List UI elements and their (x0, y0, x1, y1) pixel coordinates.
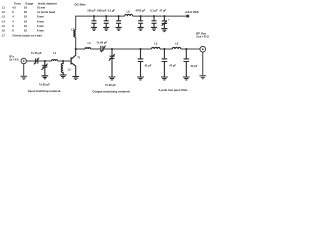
wire: source to series trimmer (26, 60, 35, 62)
capacitor 1000pF (DC filter) (97, 9, 110, 31)
capacitor 47uF electrolytic (DC filter) (159, 9, 170, 32)
svg-text:Output matching network: Output matching network (92, 89, 130, 93)
svg-text:7x 65 pF: 7x 65 pF (39, 83, 50, 87)
svg-text:Zout = 50 Ω: Zout = 50 Ω (196, 35, 209, 39)
svg-text:7x 65 pF: 7x 65 pF (96, 41, 107, 45)
svg-text:8 mm: 8 mm (37, 15, 44, 19)
junction base node (62, 60, 64, 62)
svg-text:10 mm: 10 mm (37, 6, 46, 10)
inductor winding table (2, 1, 57, 37)
svg-text:Zin = 50 Ω: Zin = 50 Ω (9, 58, 18, 62)
svg-text:0.1 µF: 0.1 µF (108, 9, 116, 13)
wire: collector output line (76, 48, 200, 50)
svg-text:7x 65 pF: 7x 65 pF (31, 51, 42, 55)
svg-text:5-pole low pass filter: 5-pole low pass filter (159, 88, 189, 92)
inductor L2 (shunt, vertical) (61, 61, 63, 75)
inductor L1 (series, input network) (51, 59, 57, 61)
svg-text:1000 pF: 1000 pF (97, 9, 107, 13)
supply terminal square (186, 15, 189, 18)
capacitor 0.1uF second (DC filter) (150, 9, 158, 31)
wire: choke to collector node (75, 37, 77, 49)
svg-text:DC filter: DC filter (75, 3, 87, 7)
trimmer capacitor series (input) (31, 51, 42, 64)
svg-text:Turns: Turns (14, 1, 22, 5)
svg-text:47 µF: 47 µF (159, 9, 166, 13)
transistor T1 (71, 49, 76, 77)
RF in source circle (20, 58, 27, 79)
trimmer capacitor series (output) (96, 41, 107, 53)
inductor L6 (series, LPF) (172, 47, 181, 49)
wire: DC supply rail (76, 16, 187, 30)
svg-text:47 pF: 47 pF (169, 63, 176, 67)
trimmer capacitor shunt (input) (39, 61, 50, 87)
capacitor 22pF (LPF) (183, 48, 198, 80)
junction input node (44, 60, 46, 62)
capacitor 0.1uF (DC filter) (108, 9, 122, 31)
svg-text:0.1 µF: 0.1 µF (150, 9, 158, 13)
capacitor 41pF (LPF) (137, 48, 152, 80)
svg-text:4700 pF: 4700 pF (136, 9, 146, 13)
junction collector node (75, 48, 77, 50)
svg-text:41 pF: 41 pF (145, 63, 152, 67)
capacitor 47pF (LPF) (161, 48, 176, 80)
RF out port circle (199, 46, 206, 78)
svg-text:Inside diameter: Inside diameter (38, 1, 57, 5)
inductor L4 (series, output network) (85, 48, 91, 49)
inductor L9 (series, DC filter) (125, 14, 133, 16)
ground of L2 (60, 75, 67, 78)
ground of emitter (72, 77, 79, 80)
svg-text:Input matching network: Input matching network (28, 89, 61, 93)
svg-text:+13.8 VDC: +13.8 VDC (184, 10, 200, 14)
svg-text:8 mm: 8 mm (37, 19, 44, 23)
wire: L1 to base node (58, 60, 71, 62)
inductor L5 (series, LPF) (152, 47, 161, 49)
svg-text:7x 65 pF: 7x 65 pF (105, 83, 116, 87)
svg-text:4.5: 4.5 (12, 6, 16, 10)
svg-text:100 µF: 100 µF (87, 9, 96, 13)
junction output node (111, 48, 113, 50)
svg-text:on ferrite bead: on ferrite bead (37, 10, 55, 14)
capacitor 4700pF (DC filter) (136, 9, 146, 31)
trimmer capacitor shunt (output) (105, 49, 116, 87)
svg-text:6 mm: 6 mm (37, 24, 44, 28)
inductor L7 RF choke (vertical) (74, 30, 76, 37)
svg-text:6 mm: 6 mm (37, 29, 44, 33)
svg-text:3 ferrite beads on a wire: 3 ferrite beads on a wire (12, 33, 42, 37)
capacitor 100uF (DC filter) (87, 9, 97, 31)
wire: trimmer to input node (38, 60, 51, 62)
svg-text:Gauge: Gauge (25, 1, 34, 5)
svg-text:22 pF: 22 pF (191, 64, 198, 68)
